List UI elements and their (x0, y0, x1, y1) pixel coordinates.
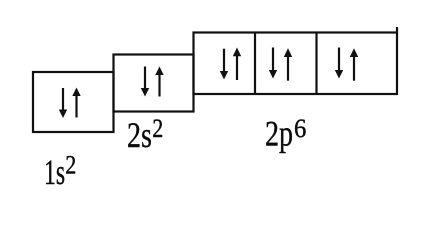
1s down arrow (62, 88, 64, 111)
svg-text:2s: 2s (127, 115, 152, 155)
1s orbital box (33, 72, 114, 132)
2p cell1 up arrow (236, 56, 238, 80)
1s up arrow (75, 95, 77, 118)
2p cell2 down arrow (272, 48, 274, 72)
svg-text:6: 6 (294, 114, 306, 143)
2p divider 1 (254, 33, 256, 95)
2p cell1 down arrow (223, 49, 225, 72)
2p cell3 up arrow (353, 57, 355, 81)
label 2p6 (265, 113, 306, 153)
2p cell2 up arrow (287, 57, 289, 81)
label 2s2 (127, 115, 163, 155)
svg-text:2: 2 (65, 152, 76, 180)
2s orbital box (114, 55, 194, 112)
corner tick top-right of 2p (396, 27, 398, 33)
2s down arrow (144, 67, 146, 90)
svg-text:2p: 2p (265, 113, 293, 153)
2p orbital block outline (194, 33, 398, 95)
2p divider 2 (315, 33, 317, 95)
2p cell3 down arrow (338, 48, 340, 72)
svg-text:2: 2 (152, 115, 163, 143)
2s up arrow (158, 74, 160, 97)
svg-text:1s: 1s (44, 152, 65, 192)
label 1s2 (44, 152, 76, 192)
